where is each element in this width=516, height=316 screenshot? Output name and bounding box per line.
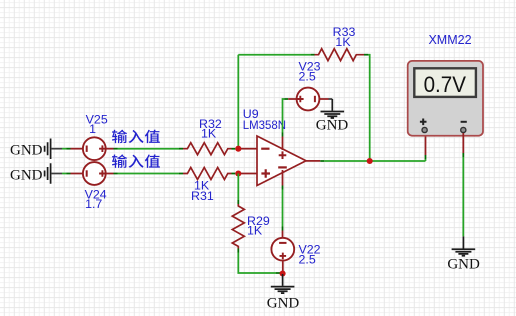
- resistor R32: [183, 143, 231, 155]
- ground GND (input 2): [10, 163, 62, 184]
- svg-text:GND: GND: [316, 118, 349, 134]
- svg-text:0.7V: 0.7V: [424, 72, 467, 97]
- svg-text:1.7: 1.7: [85, 197, 102, 211]
- multimeter XMM22: [408, 61, 483, 136]
- wire multimeter - terminal down to ground: [462, 133, 464, 153]
- node V22/R29 ground junction: [280, 270, 286, 276]
- node output junction: [367, 158, 373, 164]
- wire inverting node to op-amp: [241, 148, 257, 150]
- wire non-inverting node to op-amp: [241, 173, 257, 175]
- op-amp U9 LM358N: [257, 136, 306, 186]
- wire R33 to output node: [364, 54, 368, 56]
- wire V22 to ground node: [282, 261, 284, 271]
- wire op-amp V+ pin up to V23: [282, 133, 284, 137]
- wire ground to source (input 2): [62, 173, 67, 175]
- svg-text:1K: 1K: [335, 35, 351, 49]
- wire source to resistor (input 2): [106, 173, 114, 175]
- svg-text:2.5: 2.5: [299, 253, 316, 267]
- svg-text:GND: GND: [267, 296, 300, 312]
- wire inverting node to R33: [238, 54, 310, 56]
- svg-text:1K: 1K: [247, 224, 263, 238]
- svg-text:GND: GND: [447, 257, 480, 273]
- ground GND (multimeter): [447, 236, 480, 272]
- multimeter - terminal: [461, 121, 467, 123]
- voltage source V24: [83, 162, 106, 185]
- node inverting input junction: [235, 146, 241, 152]
- wire R32 to inverting node tick: [232, 149, 236, 174]
- wire V23 to ground: [320, 98, 329, 100]
- svg-text:1K: 1K: [201, 127, 217, 141]
- ground GND (V23): [316, 99, 349, 134]
- voltage source V23: [297, 88, 320, 111]
- svg-text:GND: GND: [10, 143, 43, 159]
- svg-text:XMM22: XMM22: [428, 33, 471, 47]
- ground GND (V22/R29): [267, 274, 300, 312]
- voltage source V22: [271, 238, 294, 261]
- wire ground to source (input 1): [62, 148, 67, 150]
- ground GND (input 1): [10, 139, 62, 160]
- wire R29 bottom to ground node: [237, 249, 239, 253]
- resistor R29: [232, 204, 244, 248]
- svg-text:R31: R31: [191, 189, 214, 203]
- voltage source V25: [83, 137, 106, 160]
- node non-inverting input junction: [235, 170, 241, 176]
- svg-text:LM358N: LM358N: [243, 118, 286, 132]
- svg-text:GND: GND: [10, 167, 43, 183]
- net label 输入值 (input 2): [112, 154, 127, 167]
- resistor R33: [315, 49, 364, 61]
- multimeter + terminal: [420, 119, 427, 126]
- net label 输入值 (input 1): [112, 130, 127, 143]
- svg-text:2.5: 2.5: [299, 70, 316, 84]
- wire op-amp V- pin down to V22: [282, 186, 284, 190]
- wire non-inverting node down to R29: [237, 174, 239, 201]
- wire feedback vertical (R33 to inverting node): [237, 55, 239, 149]
- wire op-amp output: [306, 160, 320, 162]
- wire source to resistor (input 1): [106, 148, 114, 150]
- wire output up to multimeter + terminal: [425, 159, 427, 161]
- resistor R31: [183, 168, 231, 180]
- svg-text:1: 1: [89, 122, 96, 136]
